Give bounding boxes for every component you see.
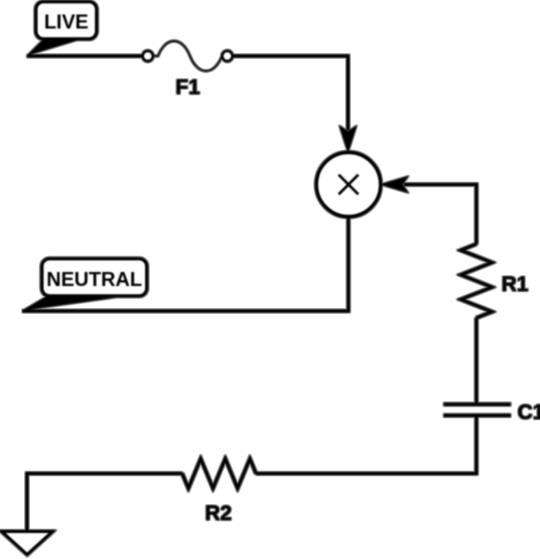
- svg-text:C1: C1: [518, 401, 540, 424]
- net flag NEUTRAL: [23, 259, 147, 311]
- resistor R2: [182, 459, 256, 489]
- wire lamp right to R1 top: [404, 185, 476, 245]
- wire fuse to lamp top corner: [233, 56, 348, 130]
- svg-text:LIVE: LIVE: [44, 12, 88, 34]
- svg-text:R1: R1: [502, 273, 529, 296]
- lamp (circle with X): [317, 153, 381, 217]
- svg-text:R2: R2: [205, 502, 232, 525]
- fuse F1: [143, 41, 233, 71]
- svg-text:NEUTRAL: NEUTRAL: [47, 269, 143, 291]
- arrowhead into lamp right: [382, 177, 408, 192]
- net flag LIVE: [27, 2, 97, 56]
- ground: [2, 532, 53, 555]
- wire R2 to ground stem: [27, 474, 182, 531]
- resistor R1: [461, 244, 492, 318]
- arrowhead into lamp top: [340, 127, 356, 152]
- svg-text:F1: F1: [176, 76, 201, 99]
- wire neutral flag to lamp bottom: [23, 217, 349, 312]
- capacitor C1: [444, 404, 511, 415]
- wire C1 to bottom corner: [256, 415, 476, 473]
- wire live flag to fuse: [27, 55, 143, 58]
- wire R1 to C1: [475, 318, 478, 404]
